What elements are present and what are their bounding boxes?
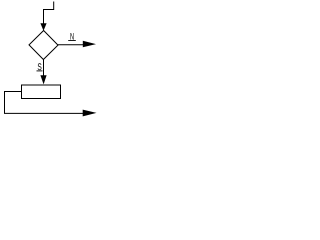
- svg-text:S: S: [37, 62, 41, 73]
- svg-text:N: N: [70, 32, 74, 43]
